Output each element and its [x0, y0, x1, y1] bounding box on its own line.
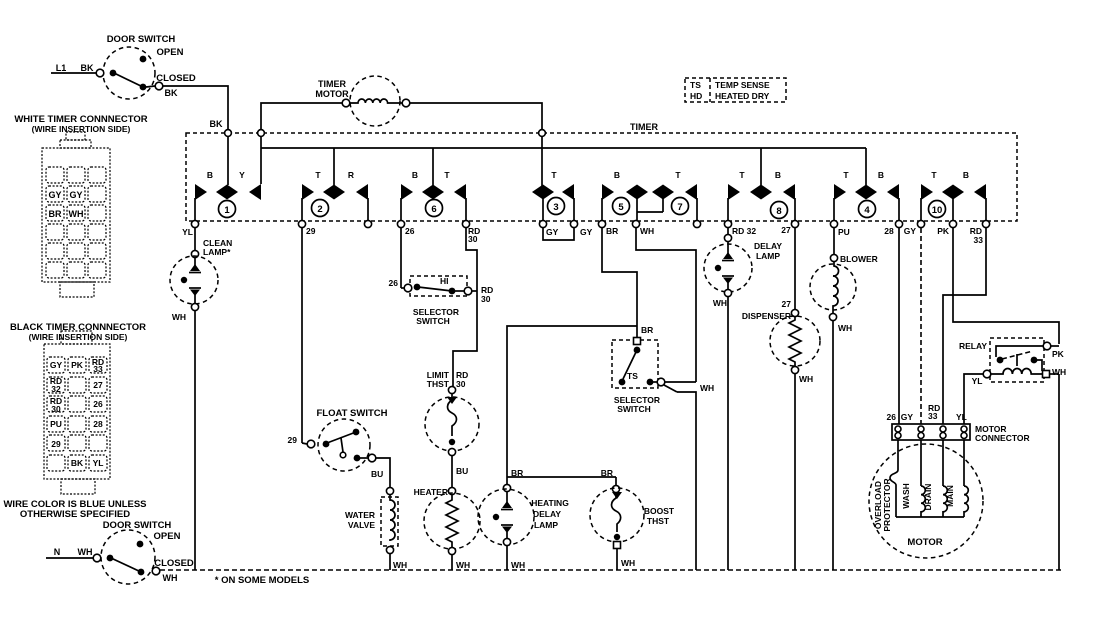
- blower motor coil: [810, 262, 856, 570]
- svg-text:26: 26: [389, 278, 399, 288]
- svg-text:RELAY: RELAY: [959, 341, 987, 351]
- svg-text:B: B: [963, 170, 969, 180]
- timer terminals on lower border: [191, 220, 989, 227]
- wire labels below timer: [182, 225, 983, 245]
- svg-text:B: B: [775, 170, 781, 180]
- wire 26 column to selector switch: [389, 228, 401, 288]
- svg-text:30: 30: [456, 379, 466, 389]
- svg-text:WH: WH: [700, 383, 714, 393]
- wire: timer motor right lead down to switch 3: [410, 103, 545, 186]
- wire RD 30 from switch 6 and selector to limit thermostat: [453, 228, 493, 386]
- svg-text:27: 27: [781, 225, 791, 235]
- svg-text:WH: WH: [713, 298, 727, 308]
- svg-text:BK: BK: [81, 63, 94, 73]
- svg-text:OTHERWISE SPECIFIED: OTHERWISE SPECIFIED: [20, 509, 130, 520]
- svg-text:BLOWER: BLOWER: [840, 254, 878, 264]
- svg-text:BK: BK: [165, 88, 178, 98]
- svg-text:MOTOR: MOTOR: [315, 89, 349, 99]
- svg-text:TIMER: TIMER: [630, 122, 658, 132]
- svg-text:Y: Y: [239, 170, 245, 180]
- svg-text:HI: HI: [440, 276, 449, 286]
- svg-text:N: N: [54, 547, 61, 557]
- svg-text:29: 29: [51, 439, 61, 449]
- wire 28/26 to motor connector: [887, 228, 899, 424]
- svg-text:WH: WH: [69, 209, 84, 219]
- svg-text:28: 28: [93, 419, 103, 429]
- svg-text:HEATER: HEATER: [414, 487, 448, 497]
- svg-text:WASH: WASH: [901, 483, 911, 509]
- water valve solenoid: [345, 487, 407, 570]
- cam switch 4: [834, 170, 899, 220]
- svg-text:WH: WH: [640, 226, 654, 236]
- limit thermostat: [425, 370, 479, 487]
- svg-text:DRAIN: DRAIN: [923, 484, 933, 511]
- svg-text:WH: WH: [511, 560, 525, 570]
- clean lamp column (YL): [191, 228, 232, 258]
- svg-text:GY: GY: [69, 190, 82, 200]
- svg-text:10: 10: [932, 205, 943, 216]
- svg-text:THST: THST: [647, 516, 670, 526]
- svg-text:T: T: [931, 170, 937, 180]
- selector switch (TS): [612, 325, 714, 570]
- svg-text:WH: WH: [838, 323, 852, 333]
- svg-text:* ON SOME MODELS: * ON SOME MODELS: [215, 575, 309, 586]
- svg-text:TEMP SENSE: TEMP SENSE: [715, 80, 770, 90]
- wire BR link to boost thermostat: [507, 468, 616, 485]
- svg-text:GY: GY: [580, 227, 593, 237]
- svg-text:PROTECTOR: PROTECTOR: [882, 478, 892, 531]
- svg-text:BK: BK: [210, 119, 223, 129]
- svg-text:WATER: WATER: [345, 510, 375, 520]
- boost thermostat: [590, 485, 675, 570]
- delay lamp: [704, 242, 752, 570]
- svg-text:L1: L1: [56, 63, 67, 73]
- wire BK from door switch to timer: [163, 86, 228, 130]
- svg-text:YL: YL: [182, 227, 193, 237]
- svg-text:(WIRE INSERTION SIDE): (WIRE INSERTION SIDE): [29, 332, 128, 342]
- svg-text:3: 3: [553, 202, 558, 213]
- svg-text:OPEN: OPEN: [157, 47, 184, 58]
- motor connector: [892, 424, 1030, 443]
- delay lamp column (RD 32): [724, 228, 782, 261]
- svg-text:GY: GY: [48, 190, 61, 200]
- svg-text:WH: WH: [621, 558, 635, 568]
- svg-text:BU: BU: [371, 469, 383, 479]
- door switch S1 (top, L1 side): [51, 34, 196, 99]
- svg-text:PK: PK: [1052, 349, 1065, 359]
- svg-text:YL: YL: [956, 412, 967, 422]
- svg-text:THST: THST: [427, 379, 450, 389]
- wire: timer motor left lead to switch 1 Y contact: [258, 103, 342, 184]
- svg-text:TIMER: TIMER: [318, 79, 346, 89]
- heater: [414, 487, 480, 570]
- svg-text:WH: WH: [799, 374, 813, 384]
- svg-text:R: R: [348, 170, 354, 180]
- wire BU to water valve: [371, 458, 390, 487]
- svg-text:MOTOR: MOTOR: [907, 537, 942, 548]
- svg-text:B: B: [878, 170, 884, 180]
- svg-text:33: 33: [974, 235, 984, 245]
- svg-text:YL: YL: [972, 376, 983, 386]
- svg-text:1: 1: [224, 205, 230, 216]
- cam switch 10: [921, 170, 986, 220]
- clean lamp: [170, 256, 218, 570]
- svg-text:HD: HD: [690, 91, 702, 101]
- svg-text:SWITCH: SWITCH: [416, 316, 450, 326]
- svg-text:CLOSED: CLOSED: [154, 558, 194, 569]
- svg-text:2: 2: [317, 204, 322, 215]
- svg-text:T: T: [444, 170, 450, 180]
- selector switch (HI): [401, 276, 472, 326]
- dispenser: [770, 309, 820, 570]
- black timer connector (wire insertion side): [10, 322, 146, 494]
- svg-text:DELAY: DELAY: [533, 509, 561, 519]
- svg-text:B: B: [207, 170, 213, 180]
- heating delay lamp: [478, 468, 569, 570]
- svg-text:LAMP: LAMP: [534, 520, 558, 530]
- svg-text:WH: WH: [172, 312, 186, 322]
- svg-text:T: T: [551, 170, 557, 180]
- svg-text:33: 33: [928, 411, 938, 421]
- svg-text:30: 30: [468, 234, 478, 244]
- svg-text:PU: PU: [838, 227, 850, 237]
- GY-GY loop under switch 3: [543, 228, 574, 240]
- svg-text:26: 26: [887, 412, 897, 422]
- svg-text:WH: WH: [393, 560, 407, 570]
- wire GY to motor connector (dashed, on some models): [901, 228, 921, 424]
- wash winding: [901, 440, 925, 517]
- svg-text:RD 32: RD 32: [732, 226, 756, 236]
- motor common rail: [896, 516, 964, 518]
- svg-text:VALVE: VALVE: [348, 520, 375, 530]
- relay: [959, 338, 1066, 570]
- main winding: [945, 440, 968, 517]
- svg-text:GY: GY: [50, 360, 63, 370]
- wire 29 column: [288, 228, 302, 445]
- svg-text:GY: GY: [901, 412, 914, 422]
- svg-text:PU: PU: [50, 419, 62, 429]
- svg-text:BR: BR: [49, 209, 62, 219]
- drain winding: [923, 440, 947, 517]
- wire BR from switch 5 to TS selector: [602, 228, 637, 337]
- svg-text:30: 30: [481, 294, 491, 304]
- wire: BK drop to switch 1 common: [225, 130, 232, 185]
- note: wire color: [3, 499, 146, 520]
- dispenser column (27): [742, 228, 795, 321]
- svg-text:DELAY: DELAY: [754, 241, 782, 251]
- svg-text:5: 5: [618, 202, 624, 213]
- svg-text:YL: YL: [93, 458, 104, 468]
- svg-text:BR: BR: [641, 325, 653, 335]
- svg-text:TS: TS: [690, 80, 701, 90]
- cam switch 3: [532, 170, 574, 220]
- motor: [869, 444, 983, 558]
- svg-text:26: 26: [405, 226, 415, 236]
- timer box: [186, 122, 1017, 221]
- cam switch 7: [637, 170, 697, 220]
- svg-text:8: 8: [776, 206, 781, 217]
- svg-text:CLOSED: CLOSED: [156, 73, 196, 84]
- svg-text:32: 32: [51, 384, 61, 394]
- svg-text:30: 30: [51, 404, 61, 414]
- blower column (PU): [830, 228, 877, 264]
- svg-text:LAMP: LAMP: [756, 251, 780, 261]
- svg-text:BR: BR: [601, 468, 613, 478]
- svg-text:BOOST: BOOST: [644, 506, 675, 516]
- svg-text:7: 7: [677, 202, 682, 213]
- svg-text:T: T: [843, 170, 849, 180]
- cam switch 5: [602, 170, 648, 220]
- wire YL from relay to motor connector: [956, 374, 983, 424]
- door switch S2 (bottom, N side): [46, 520, 194, 584]
- wire PK to relay: [953, 228, 1059, 344]
- wire BR branch to heating delay lamp: [507, 326, 637, 484]
- svg-text:WH: WH: [163, 573, 178, 583]
- svg-text:T: T: [739, 170, 745, 180]
- wire WH from switch 5 down right side: [636, 228, 696, 382]
- float switch: [302, 408, 388, 471]
- svg-text:BR: BR: [606, 226, 618, 236]
- svg-text:WH: WH: [456, 560, 470, 570]
- svg-text:29: 29: [306, 226, 316, 236]
- svg-text:HEATING: HEATING: [531, 498, 569, 508]
- svg-text:26: 26: [93, 399, 103, 409]
- svg-text:PK: PK: [937, 226, 950, 236]
- svg-text:DOOR SWITCH: DOOR SWITCH: [103, 520, 172, 531]
- svg-text:T: T: [315, 170, 321, 180]
- svg-text:CONNECTOR: CONNECTOR: [975, 433, 1030, 443]
- timer feed bus inside timer: [261, 148, 866, 185]
- svg-text:WH: WH: [78, 547, 93, 557]
- svg-text:33: 33: [93, 364, 103, 374]
- svg-text:29: 29: [288, 435, 298, 445]
- svg-text:6: 6: [431, 204, 436, 215]
- svg-text:B: B: [412, 170, 418, 180]
- cam switch 8: [728, 170, 795, 220]
- svg-text:T: T: [675, 170, 681, 180]
- svg-text:B: B: [614, 170, 620, 180]
- svg-text:FLOAT SWITCH: FLOAT SWITCH: [316, 408, 387, 419]
- cam switch 2: [302, 170, 368, 220]
- legend box TS/HD: [685, 78, 786, 102]
- svg-text:27: 27: [93, 380, 103, 390]
- svg-text:MAIN: MAIN: [945, 485, 955, 507]
- svg-text:27: 27: [782, 299, 792, 309]
- svg-text:LAMP*: LAMP*: [203, 247, 231, 257]
- svg-text:GY: GY: [546, 227, 559, 237]
- timer motor M1: [315, 76, 409, 126]
- overload protector: [873, 440, 898, 532]
- wire RD 33 jog to motor connector: [928, 228, 986, 424]
- neutral bus wire (bottom): [160, 570, 1062, 586]
- white timer connector (wire insertion side): [14, 114, 147, 297]
- svg-text:BU: BU: [456, 466, 468, 476]
- cam switch 1: [195, 170, 261, 220]
- svg-text:4: 4: [864, 205, 870, 216]
- svg-text:DOOR SWITCH: DOOR SWITCH: [107, 34, 176, 45]
- svg-text:OPEN: OPEN: [154, 531, 181, 542]
- svg-text:28: 28: [884, 226, 894, 236]
- svg-text:SWITCH: SWITCH: [617, 404, 651, 414]
- svg-text:GY: GY: [904, 226, 917, 236]
- svg-text:TS: TS: [627, 371, 638, 381]
- cam switch 6: [401, 170, 466, 220]
- svg-text:HEATED DRY: HEATED DRY: [715, 91, 770, 101]
- svg-text:PK: PK: [71, 360, 84, 370]
- svg-text:BK: BK: [71, 458, 84, 468]
